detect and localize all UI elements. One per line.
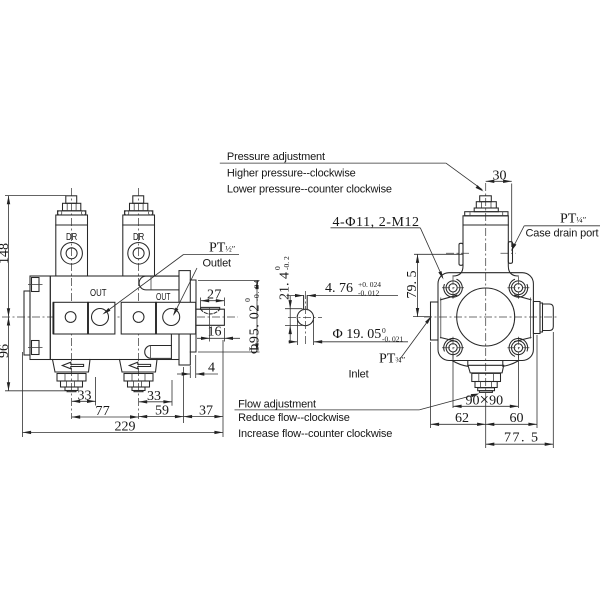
valve tower V2 body [123,215,155,276]
valve V2 locknut [130,203,148,211]
centerline main horizontal [2,316,238,318]
valve V1 screw top [66,196,77,204]
centerline right vertical [485,183,487,399]
svg-text:77: 77 [96,404,111,419]
dim 37 [222,340,224,437]
svg-text:-0. 012: -0. 012 [358,289,379,298]
port circle OUT1 [92,309,109,326]
shaft section keyway [303,296,305,310]
svg-text:Pressure adjustment: Pressure adjustment [227,151,325,163]
flow arrow icon S2 [129,362,150,369]
svg-text:16: 16 [208,324,222,339]
svg-text:PT¼″: PT¼″ [560,211,587,226]
svg-text:Reduce flow--clockwise: Reduce flow--clockwise [238,412,350,424]
svg-text:Φ 19. 05: Φ 19. 05 [333,327,382,342]
svg-text:4. 76: 4. 76 [325,281,353,296]
center bore [457,288,515,346]
inlet block left [431,302,439,340]
svg-text:90×90: 90×90 [466,390,504,409]
valve V1 drain port [61,243,83,265]
dim 4 [189,366,191,378]
leader inlet [400,318,431,360]
mounting flange [179,271,190,365]
LEFTVIEW [2,188,238,419]
tower cap plate [465,212,508,216]
svg-text:PT¾″: PT¾″ [379,352,406,367]
svg-text:Higher pressure--clockwise: Higher pressure--clockwise [227,167,356,179]
flange outline [438,273,533,361]
keyway slot [201,307,220,309]
dim 77 [72,416,139,418]
flow screw hex stack S1 [57,374,86,382]
svg-text:30: 30 [493,168,507,183]
dim 30 [511,184,513,248]
bolt hole BL [446,341,460,355]
cover bolt top [32,278,40,292]
svg-text:Flow adjustment: Flow adjustment [238,398,316,410]
flow arrow icon S1 [62,362,83,369]
svg-text:62: 62 [455,411,469,426]
svg-text:Outlet: Outlet [203,258,232,270]
outlet block B right [540,303,543,332]
svg-text:79. 5: 79. 5 [405,271,420,299]
bolt hole TL [446,281,460,295]
pump body [50,276,179,360]
centerline valve V2 [138,188,140,419]
dim phi95.02 [198,280,260,282]
flange inner face line right [530,298,532,339]
svg-text:96: 96 [0,344,12,358]
svg-text:229: 229 [115,419,136,434]
dim 59 [183,367,185,423]
flow screw hex stack S2 [124,374,153,382]
dim 16 [223,328,225,342]
outlet boss top tongue [139,276,179,290]
bolt hole TR [512,281,526,295]
shaft [196,309,224,325]
dim 77.5 [552,332,554,448]
tower screw top [480,196,492,202]
dim 33 second [171,380,173,406]
dim 27 [200,298,202,308]
svg-text:27: 27 [207,288,222,303]
flow screw boss right view [468,361,503,366]
svg-text:Increase flow--counter clockwi: Increase flow--counter clockwise [238,428,392,440]
tower locknut [476,202,496,208]
shaft section circle [297,309,313,325]
svg-text:33: 33 [78,389,92,404]
svg-text:148: 148 [0,243,12,264]
port block row [53,302,88,334]
svg-text:37: 37 [199,404,213,419]
valve V1 cap [58,211,86,215]
dim 229 [22,352,24,437]
svg-text:60: 60 [510,411,524,426]
dim 148 [5,195,66,197]
pressure valve tower front [453,216,518,276]
outlet block A right [533,302,540,334]
centerline valve V1 [71,188,73,419]
centerline right horizontal [424,316,559,318]
dim 33 first [95,377,97,406]
tower washer [474,208,498,212]
port circle P2 [133,312,144,323]
svg-text:4: 4 [208,361,215,376]
svg-text:OUT: OUT [156,291,171,303]
svg-text:33: 33 [147,389,161,404]
dim 4.76 [287,295,304,297]
svg-text:59: 59 [155,404,169,419]
dim 79.5 [414,253,463,255]
svg-text:Inlet: Inlet [349,369,369,381]
outlet boss bottom tongue [145,346,172,359]
flange inner face line left [440,298,442,339]
dim 21.4 [285,308,303,310]
dim 96 [5,390,66,392]
dim 62 60 [430,342,432,428]
svg-text:PT½″: PT½″ [209,241,236,256]
port circle P1 [65,312,76,323]
flow screw hex right view [472,373,501,381]
flow screw boss S1 [53,360,91,373]
valve V2 screw top [133,196,144,204]
outlet block C right [543,304,554,331]
drain tab left [459,243,463,265]
leader case drain [524,225,600,227]
valve V2 cap [125,211,153,215]
cover bolt bottom [32,341,40,355]
svg-text:77. 5: 77. 5 [504,431,540,446]
centerline drain ticks [446,252,471,254]
dim 90x90 [452,352,454,408]
RIGHTVIEW [273,168,600,448]
rear cover plate [24,291,30,355]
valve V2 drain port [128,243,150,265]
body arc below flange [452,361,519,367]
bolt hole BR [512,341,526,355]
svg-text:DR: DR [133,231,145,243]
svg-text:OUT: OUT [90,287,107,299]
rear cover [30,276,50,360]
svg-text:Lower pressure--counter clockw: Lower pressure--counter clockwise [227,183,392,195]
svg-text:-0. 021: -0. 021 [382,335,403,344]
valve tower V1 body [56,215,88,276]
drain tab right [508,242,512,264]
svg-text:DR: DR [66,231,78,243]
dim phi19.05 [296,320,298,345]
leader PT half outlet [184,254,240,256]
valve V1 locknut [63,203,81,211]
flow screw boss S2 [120,360,158,373]
svg-text:Case drain port: Case drain port [526,228,599,240]
pilot spigot [190,280,196,352]
port circle OUT2 [163,309,180,326]
